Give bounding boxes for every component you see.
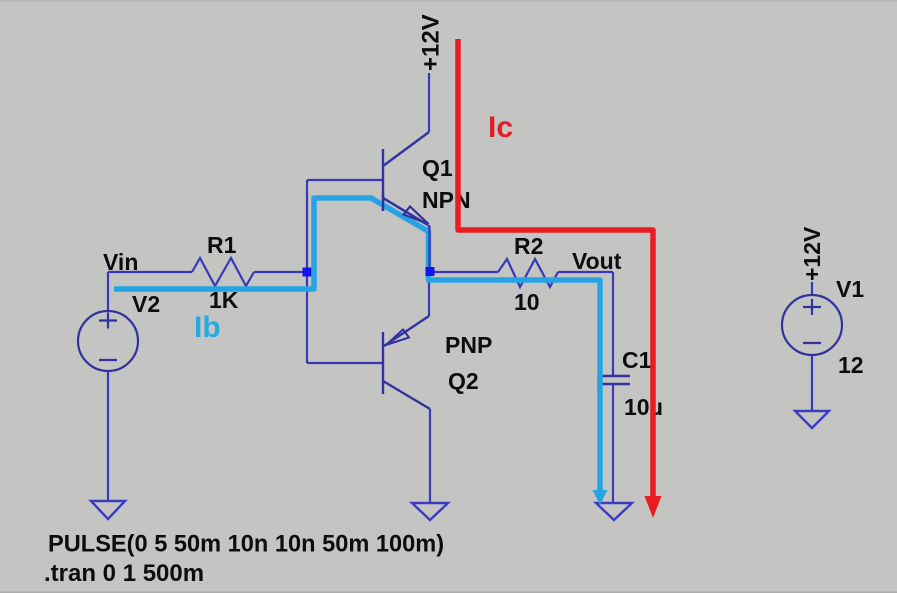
- label Q1: [422, 155, 453, 181]
- label R1: [207, 232, 237, 258]
- wire Q1 base: [307, 179, 382, 181]
- label Q2: [448, 368, 479, 394]
- node base junction: [303, 268, 312, 277]
- svg-text:R1: R1: [207, 232, 237, 258]
- label Ib: [194, 311, 221, 344]
- label Ic: [488, 111, 513, 144]
- transistor Q2: [383, 316, 430, 409]
- wire Q2 emitter: [428, 272, 430, 316]
- svg-text:Ib: Ib: [194, 311, 221, 344]
- label C1: [622, 347, 652, 373]
- wire +12V to V1: [811, 282, 813, 296]
- voltage source V2: [78, 311, 138, 371]
- wire base vertical: [306, 180, 308, 363]
- node emitter junction: [426, 267, 435, 276]
- svg-text:+12V: +12V: [799, 226, 825, 281]
- voltage source V1: [782, 295, 842, 355]
- svg-text:+12V: +12V: [418, 14, 445, 71]
- ground (Q2): [412, 503, 448, 520]
- svg-text:PULSE(0 5 50m 10n 10n 50m 100m: PULSE(0 5 50m 10n 10n 50m 100m): [48, 532, 444, 558]
- svg-text:NPN: NPN: [422, 187, 471, 213]
- value 1K: [209, 287, 239, 313]
- label V1: [836, 276, 864, 302]
- wire C1 to ground: [612, 384, 614, 502]
- wire node to R2: [430, 271, 498, 273]
- resistor R2: [498, 259, 558, 287]
- wire Q1 emitter overdraw: [428, 226, 430, 272]
- label NPN: [422, 187, 471, 213]
- svg-text:R2: R2: [514, 233, 543, 259]
- svg-text:V1: V1: [836, 276, 864, 302]
- ground (C1): [596, 503, 632, 520]
- label V2: [132, 291, 160, 317]
- wire Vout down to C1: [612, 272, 614, 375]
- label PNP: [445, 332, 492, 358]
- value 12: [838, 352, 864, 378]
- transistor Q1: [383, 132, 429, 225]
- wire V1 to ground: [811, 355, 813, 410]
- resistor R1: [192, 258, 254, 286]
- svg-text:12: 12: [838, 352, 864, 378]
- directive PULSE: [48, 532, 444, 558]
- ground (V2): [91, 501, 125, 519]
- wire R2 to Vout corner: [558, 271, 613, 273]
- svg-text:10: 10: [514, 289, 540, 315]
- wire R1 to base node: [254, 271, 303, 273]
- wire Q2 base: [307, 362, 382, 364]
- capacitor C1: [597, 376, 630, 384]
- power label +12V (top): [418, 14, 445, 71]
- svg-text:Vin: Vin: [103, 249, 138, 275]
- svg-text:PNP: PNP: [445, 332, 492, 358]
- svg-text:V2: V2: [132, 291, 160, 317]
- svg-text:10µ: 10µ: [624, 394, 663, 420]
- net label Vin: [103, 249, 138, 275]
- svg-text:Ic: Ic: [488, 111, 513, 144]
- wire Vin down to V2: [107, 272, 109, 311]
- wire V2 to ground: [107, 371, 109, 501]
- power label +12V (right): [799, 226, 825, 281]
- directive .tran: [44, 560, 204, 587]
- value 10: [514, 289, 540, 315]
- annotation Ib current path (blue): [114, 198, 608, 505]
- wire Q1 emitter to output node: [428, 225, 430, 272]
- value 10u: [624, 394, 663, 420]
- svg-text:C1: C1: [622, 347, 652, 373]
- wire Q2 collector to ground: [429, 409, 431, 502]
- svg-text:Q1: Q1: [422, 155, 453, 181]
- label R2: [514, 233, 543, 259]
- svg-text:Vout: Vout: [572, 248, 622, 274]
- net label Vout: [572, 248, 622, 274]
- svg-text:.tran 0 1 500m: .tran 0 1 500m: [44, 560, 204, 587]
- wire Vin to R1: [108, 271, 192, 273]
- ground (V1): [795, 411, 829, 428]
- wire Q1 collector to +12V: [428, 73, 430, 132]
- transistor Q1 emitter overdraw: [383, 193, 429, 225]
- svg-text:Q2: Q2: [448, 368, 479, 394]
- annotation Ic current path (red): [458, 39, 662, 518]
